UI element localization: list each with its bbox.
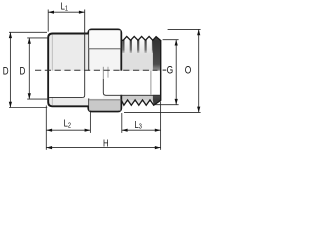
- svg-text:O: O: [185, 65, 192, 77]
- svg-text:G: G: [167, 65, 174, 77]
- svg-text:D: D: [3, 65, 9, 77]
- svg-text:H: H: [103, 137, 109, 148]
- svg-text:D: D: [20, 65, 26, 77]
